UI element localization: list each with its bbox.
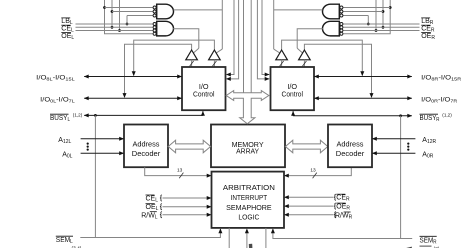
wire vertical net R/W-L feed (to gate inputs) [103,0,156,34]
svg-text:Decoder: Decoder [132,149,161,158]
svg-text:Decoder: Decoder [336,149,365,158]
svg-text:A0R: A0R [422,152,433,160]
wire gate U4 output to enable of buffer T4 [297,29,323,53]
wire M/S line (cropped below) [245,228,249,248]
label CE-R [421,25,435,33]
svg-text:CEL: CEL [146,195,159,203]
wire vertical net CE-L feed [111,0,114,29]
label OE-R [421,33,435,41]
svg-text:I/O0L-I/O7L: I/O0L-I/O7L [40,96,75,103]
wire gate U3 input 1 [343,7,391,9]
svg-text:13: 13 [310,167,316,173]
label CE-L (control) [146,195,159,203]
bus arrow I/O-to-memory (T-shaped) [226,91,269,124]
svg-text:SEMR: SEMR [420,237,437,245]
wire center data line to right I/O control (lower) [257,0,269,81]
label CE-L [61,25,74,33]
AND gate U4 (lower right) [323,21,343,36]
wire LB-R line [340,23,420,25]
wire right decoder to arbitration (13-bit) [284,167,351,177]
svg-text:OER: OER [421,33,435,41]
label BUSY-R [420,112,453,123]
wire vertical net CE-R feed [382,0,385,29]
wire CE-L line [76,26,157,28]
label A12L [58,137,71,145]
wire I/O0L-I/O7L bus line [84,96,182,100]
wire CE-R line [340,26,420,28]
wire gate U1 input 2 [112,11,153,13]
label A0L [62,152,72,160]
svg-text:INTERRUPT: INTERRUPT [231,193,268,202]
svg-text:A12L: A12L [58,137,71,145]
wire gate U2 output to enable of buffer T1 [173,29,199,53]
Address Decoder box (left) [124,125,168,168]
label SEM-R [420,236,437,245]
wire SEM-R line [271,228,412,238]
label I/O0L-I/O7L [40,96,75,103]
buffer T1 (tri-state, left) [186,50,198,67]
label OE-R (control) [336,203,350,211]
svg-text:LOGIC: LOGIC [238,213,260,222]
wire I/O0R-I/O7R bus line [314,96,412,100]
wire gate U1 input 1 [105,7,154,9]
buffer T2 (tri-state, left) [209,50,221,67]
wire gate U1 input 3 [127,15,153,17]
svg-text:OEL: OEL [61,33,74,41]
bus arrow decoder-to-memory (right) [285,140,327,153]
label A12R [422,137,436,145]
svg-text:(1,2): (1,2) [73,112,83,117]
wire center bus line left edge [243,0,245,93]
svg-text:BUSYL: BUSYL [50,115,70,123]
wire INT-L line (cropped below) [228,228,230,248]
svg-text:R/WR: R/WR [335,213,353,221]
wire OE-L control line [160,204,212,210]
wire center data line to right I/O control (upper) [262,0,270,77]
buffer T3 (tri-state, right) [276,50,288,67]
node ellipsis between right address pins [407,143,409,151]
wire buffer T3 output route to I/O8-15R bus [282,40,365,76]
label SEM-L [56,236,73,245]
wire R/W-R control line [284,212,336,218]
label A0R [422,152,433,160]
wire vertical net LB-R to gate U3 input [367,16,370,26]
label I/O8L-I/O15L [36,74,75,81]
label CE-R (control) [336,194,350,202]
label SEM-R footnote (cropped) [406,246,440,248]
label 13 (right) with slash [310,167,316,178]
wire SEM-L line [80,228,222,237]
wire gate U3 input 3 [343,15,369,17]
buffer T4 (tri-state, right) [299,50,311,67]
AND gate U3 (upper right) [323,4,343,19]
wire BUSY-L line [84,111,205,238]
svg-text:A12R: A12R [422,137,436,145]
svg-text:OER: OER [336,204,350,212]
svg-text:I/O0R-I/O7R: I/O0R-I/O7R [421,96,458,103]
wire OE-L line [76,30,157,32]
wire OE-R line [340,30,420,32]
wire gate U3 output to enable of buffer T3 [274,0,323,53]
svg-text:BUSYR: BUSYR [420,115,440,123]
wire gate U1 output to enable of buffer T2 [174,0,223,53]
wire OE-R control line [284,203,336,209]
label LB-L [61,18,73,26]
AND gate U2 (lower left) [153,21,173,36]
AND gate U1 (upper left) [153,4,173,19]
wire CE-L control line [160,195,212,201]
wire left decoder to arbitration (13-bit) [145,167,212,177]
wire vertical net LB-L to gate U1 input [126,16,129,26]
svg-text:ARBITRATION: ARBITRATION [223,183,275,192]
label OE-L (control) [146,204,159,212]
ARBITRATION INTERRUPT SEMAPHORE LOGIC box [212,172,285,228]
I/O Control box (right) [271,67,315,110]
svg-text:SEMAPHORE: SEMAPHORE [226,203,272,212]
wire buffer T2 output route to I/O8-15L bus [132,40,215,76]
wire BUSY-R line [291,111,412,239]
label SEM-L footnote (cropped) [72,246,85,248]
wire A0R address line [372,151,415,155]
svg-text:I/O8L-I/O15L: I/O8L-I/O15L [36,74,75,81]
label BUSY-L [50,112,83,123]
svg-text:SEML: SEML [56,237,73,245]
label LB-R [421,18,434,26]
svg-text:Address: Address [133,139,160,148]
svg-text:R/WL: R/WL [141,212,158,220]
I/O Control box (left) [182,67,226,110]
wire buffer T4 output route to I/O0-7R bus [304,44,373,98]
label I/O0R-I/O7R [421,96,458,103]
svg-text:Address: Address [337,139,364,148]
label R/W-R [335,212,353,221]
wire vertical net OE-R feed [375,0,378,32]
wire I/O8R-I/O15R bus line [314,75,412,79]
wire A12L address line [81,137,124,141]
svg-text:Control: Control [193,89,215,98]
bus arrow decoder-to-memory (left) [168,140,210,153]
svg-text:CER: CER [336,195,350,203]
svg-text:ARRAY: ARRAY [236,146,259,155]
label 13 (left) with slash [177,167,183,178]
wire vertical net R/W-R feed [340,0,392,34]
wire I/O8L-I/O15L bus line [84,75,182,79]
Address Decoder box (right) [328,125,372,168]
MEMORY ARRAY box [211,125,285,168]
label M/S (cropped at bottom edge) [249,244,253,248]
wire gate U3 input 2 [343,11,383,13]
label R/W-L [141,212,158,221]
wire A12R address line [372,137,415,141]
node ellipsis between address pins [87,143,89,151]
wire center data line to left I/O control (lower) [226,0,239,81]
svg-text:OEL: OEL [146,204,159,212]
svg-text:A0L: A0L [62,152,72,160]
svg-text:Control: Control [282,89,304,98]
wire center bus line right edge [250,0,252,93]
wire LB-L line [76,23,157,25]
wire R/W-L control line [160,212,212,218]
wire vertical net OE-L feed [118,0,121,32]
wire center data line to left I/O control (upper) [226,0,234,77]
wire INT-R line (cropped below) [265,228,267,248]
wire buffer T1 output route to I/O0-7L bus [123,44,192,98]
label I/O8R-I/O15R [421,74,462,81]
wire CE-R control line [284,194,336,200]
svg-text:I/O8R-I/O15R: I/O8R-I/O15R [421,74,462,81]
svg-text:(1,2): (1,2) [442,112,452,117]
label OE-L [61,33,74,41]
svg-text:13: 13 [177,167,183,173]
wire A0L address line [81,151,124,155]
